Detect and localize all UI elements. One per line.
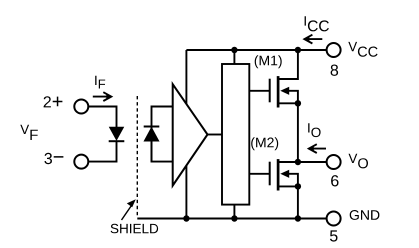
wire M1 body arrow tail: [288, 91, 298, 104]
transistor M1 MOSFET: [270, 76, 290, 107]
terminal pin 6 Vo: [327, 155, 341, 169]
wire M1 drain to Vcc rail: [278, 50, 298, 79]
label pin 3 minus: [44, 153, 63, 164]
wire LED cathode to pin 3: [88, 141, 116, 162]
node junction dot GND rail mid: [231, 215, 237, 221]
wire amplifier power vertical: [185, 50, 187, 219]
wire pin 2 to LED anode: [88, 107, 116, 129]
terminal pin 3 cathode: [74, 155, 88, 169]
wire M2 body arrow tail: [288, 174, 298, 187]
terminal pin 5 GND: [327, 212, 341, 226]
photodiode D2: [144, 127, 160, 162]
op-amp U1 amplifier triangle: [173, 84, 208, 185]
wire driver block bottom stub: [233, 205, 235, 219]
node junction dot M2 source: [295, 183, 301, 189]
node junction dot GND rail right: [295, 215, 301, 221]
terminal pin 2 anode: [74, 100, 88, 114]
transistor M2 MOSFET: [270, 159, 290, 190]
wire M2 drain to Vo node: [278, 161, 298, 163]
shield dashed isolation line: [136, 96, 138, 218]
node junction dot GND rail left: [183, 215, 189, 221]
current arrow ICC: [304, 35, 322, 44]
label GND: [350, 210, 380, 220]
wire top Vcc rail: [186, 49, 326, 51]
wire M2 source to GND rail: [278, 186, 298, 218]
node junction dot top rail left: [231, 47, 237, 53]
shield pointer arrow: [122, 199, 136, 220]
label VO: [349, 154, 369, 169]
wire Vo node to pin 6: [298, 161, 327, 163]
wire M2 gate lead: [249, 173, 269, 175]
node junction dot top rail right: [295, 47, 301, 53]
wire bottom GND rail: [137, 218, 326, 220]
label IO: [308, 123, 320, 137]
node junction dot M1 source: [295, 100, 301, 106]
current arrow IF: [93, 92, 112, 101]
label ICC: [305, 16, 329, 31]
wire amplifier output to driver block: [208, 134, 223, 136]
label VF: [20, 125, 38, 140]
label pin number 5: [330, 230, 338, 241]
current arrow IO: [309, 144, 326, 153]
wire driver block top stub: [233, 50, 235, 64]
label pin number 6: [331, 175, 338, 186]
wire M1 source to Vo node: [278, 103, 298, 162]
wire photodiode loop: [152, 107, 173, 162]
driver block rectangle: [222, 64, 249, 205]
wire M1 gate lead: [249, 90, 269, 92]
label pin number 8: [331, 65, 339, 76]
label M1: [255, 55, 282, 68]
label pin 2 plus: [44, 96, 63, 107]
label SHIELD: [111, 224, 159, 234]
label IF: [95, 76, 105, 89]
node junction dot Vo: [295, 159, 301, 165]
LED D1 emitter diode: [109, 127, 125, 141]
label M2: [251, 137, 278, 150]
label VCC: [348, 42, 377, 57]
terminal pin 8 Vcc: [327, 43, 341, 57]
